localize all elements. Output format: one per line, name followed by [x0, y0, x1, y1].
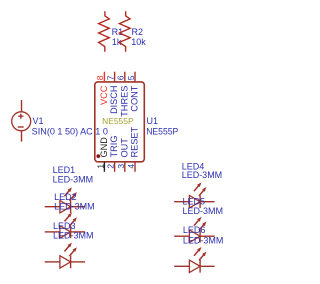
svg-text:LED2: LED2 — [54, 192, 77, 202]
svg-text:LED1: LED1 — [53, 165, 76, 175]
pin 8 VCC stub — [103, 72, 105, 82]
pin 3 OUT stub — [124, 162, 126, 172]
svg-text:THRES: THRES — [119, 86, 129, 117]
svg-text:7: 7 — [105, 75, 115, 80]
svg-text:U1: U1 — [147, 116, 159, 126]
LED diode LED4 — [174, 182, 214, 208]
voltage source V1 — [12, 100, 31, 142]
svg-text:2: 2 — [106, 164, 116, 169]
svg-text:RESET: RESET — [130, 126, 140, 157]
svg-text:TRIG: TRIG — [109, 136, 119, 158]
svg-text:LED6: LED6 — [183, 225, 206, 235]
V1 minus sign — [18, 126, 24, 128]
svg-text:VCC: VCC — [99, 85, 109, 105]
op-amp U1 NE555P body — [95, 82, 145, 162]
resistor R2 — [119, 11, 130, 52]
svg-text:DISCH: DISCH — [109, 86, 119, 114]
pin 4 RESET stub — [134, 162, 136, 172]
svg-text:LED-3MM: LED-3MM — [183, 206, 224, 216]
svg-text:OUT: OUT — [119, 138, 129, 158]
pin 5 CONT stub — [134, 72, 136, 82]
LED diode LED5 — [174, 217, 214, 243]
svg-text:6: 6 — [116, 75, 126, 80]
wire V1 bottom lead — [21, 131, 23, 142]
LED diode LED1 — [45, 187, 85, 213]
pin 7 DISCH stub — [114, 72, 116, 82]
wire V1 top lead — [21, 100, 23, 112]
svg-text:LED-3MM: LED-3MM — [53, 175, 94, 185]
svg-text:1: 1 — [95, 164, 105, 169]
svg-text:V1: V1 — [33, 116, 44, 126]
resistor R1 — [99, 11, 110, 52]
svg-text:SIN(0 1 50) AC 1 0: SIN(0 1 50) AC 1 0 — [32, 127, 108, 137]
V1 plus sign — [18, 114, 23, 119]
svg-text:3: 3 — [116, 164, 126, 169]
pin 2 TRIG stub — [114, 162, 116, 172]
LED diode LED6 — [174, 247, 214, 273]
pin 6 THRES stub — [124, 72, 126, 82]
svg-text:GND: GND — [99, 137, 109, 158]
svg-text:CONT: CONT — [130, 85, 140, 111]
pin 1 GND stub — [103, 162, 105, 172]
svg-text:4: 4 — [126, 164, 136, 169]
svg-text:NE555P: NE555P — [146, 127, 178, 137]
LED diode LED3 — [45, 243, 85, 269]
svg-text:R2: R2 — [132, 27, 144, 37]
svg-text:LED3: LED3 — [53, 221, 76, 231]
svg-text:LED-3MM: LED-3MM — [53, 230, 94, 240]
svg-text:LED-3MM: LED-3MM — [183, 236, 224, 246]
svg-text:8: 8 — [95, 75, 105, 80]
V1 body circle — [12, 112, 31, 131]
svg-text:5: 5 — [126, 75, 136, 80]
svg-text:10k: 10k — [131, 37, 146, 47]
svg-text:NE555P: NE555P — [102, 116, 134, 126]
svg-text:LED-3MM: LED-3MM — [54, 202, 95, 212]
LED diode LED2 — [45, 213, 85, 239]
pin 1 junction dot — [96, 154, 100, 158]
svg-text:LED-3MM: LED-3MM — [182, 170, 223, 180]
